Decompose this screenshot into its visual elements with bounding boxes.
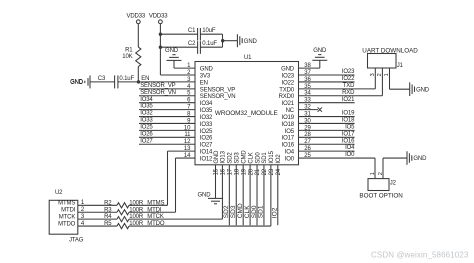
svg-text:MTCK: MTCK — [59, 214, 76, 220]
svg-text:IO27: IO27 — [140, 138, 153, 144]
svg-text:R1: R1 — [125, 48, 133, 54]
svg-text:R4: R4 — [104, 214, 112, 220]
svg-text:RXD0: RXD0 — [279, 94, 295, 100]
svg-text:SD0: SD0 — [255, 152, 261, 164]
svg-text:38: 38 — [304, 63, 311, 69]
svg-text:U2: U2 — [55, 190, 63, 196]
svg-text:16: 16 — [221, 168, 227, 175]
svg-text:GND: GND — [244, 39, 258, 45]
svg-text:C1: C1 — [188, 28, 196, 34]
svg-text:IO33: IO33 — [140, 118, 153, 124]
svg-text:C2: C2 — [188, 41, 196, 47]
svg-text:IO21: IO21 — [342, 97, 355, 103]
svg-text:MTMS: MTMS — [58, 201, 75, 207]
svg-text:24: 24 — [276, 168, 282, 175]
svg-text:J1: J1 — [397, 63, 404, 69]
svg-text:IO18: IO18 — [342, 118, 355, 124]
svg-text:EN: EN — [200, 80, 208, 86]
svg-text:NC: NC — [286, 108, 295, 114]
svg-text:0.1uF: 0.1uF — [202, 41, 217, 47]
svg-text:2: 2 — [377, 73, 383, 76]
svg-text:19: 19 — [241, 168, 247, 175]
svg-text:IO17: IO17 — [342, 131, 355, 137]
svg-text:CLK: CLK — [248, 152, 254, 163]
svg-text:EN: EN — [141, 76, 149, 82]
svg-text:IO19: IO19 — [282, 115, 295, 121]
svg-text:MTDI: MTDI — [61, 208, 76, 214]
svg-text:IO22: IO22 — [282, 80, 295, 86]
svg-text:SENSOR_VN: SENSOR_VN — [200, 94, 236, 100]
svg-text:SENSOR_VP: SENSOR_VP — [200, 87, 235, 93]
svg-text:IO32: IO32 — [140, 111, 153, 117]
svg-text:WROOM32_MODULE: WROOM32_MODULE — [215, 110, 278, 117]
svg-text:10K: 10K — [122, 54, 132, 60]
svg-text:SD1: SD1 — [262, 152, 268, 164]
svg-text:MTDO: MTDO — [58, 221, 76, 227]
svg-text:J2: J2 — [390, 180, 397, 186]
svg-text:MTDI: MTDI — [147, 207, 162, 213]
svg-text:R2: R2 — [104, 200, 112, 206]
svg-text:IO35: IO35 — [200, 108, 213, 114]
svg-text:IO4: IO4 — [285, 150, 295, 156]
svg-text:15: 15 — [214, 168, 220, 175]
svg-text:18: 18 — [234, 168, 240, 175]
svg-text:GND: GND — [200, 67, 214, 73]
svg-text:3: 3 — [370, 73, 376, 76]
svg-text:IO19: IO19 — [342, 111, 355, 117]
svg-text:IO25: IO25 — [200, 129, 213, 135]
svg-text:IO12: IO12 — [200, 156, 213, 162]
svg-text:IO35: IO35 — [140, 104, 153, 110]
svg-text:IO21: IO21 — [282, 101, 295, 107]
svg-text:GND: GND — [313, 48, 327, 54]
svg-text:23: 23 — [269, 168, 275, 175]
svg-text:SD3: SD3 — [235, 152, 241, 164]
svg-text:1: 1 — [370, 172, 376, 175]
svg-text:GND: GND — [413, 156, 427, 162]
svg-text:GND: GND — [416, 87, 430, 93]
svg-text:100R: 100R — [129, 200, 144, 206]
svg-text:VDD33: VDD33 — [127, 14, 146, 20]
svg-text:JTAG: JTAG — [69, 238, 84, 244]
svg-text:R3: R3 — [104, 207, 112, 213]
svg-text:IO14: IO14 — [200, 150, 213, 156]
svg-text:IO32: IO32 — [200, 115, 213, 121]
svg-text:0.1uF: 0.1uF — [119, 76, 134, 82]
svg-text:1: 1 — [384, 73, 390, 76]
svg-text:IO23: IO23 — [342, 69, 355, 75]
svg-text:IO27: IO27 — [200, 143, 213, 149]
svg-text:GND: GND — [165, 48, 179, 54]
svg-text:TXD0: TXD0 — [279, 87, 295, 93]
svg-text:MTCK: MTCK — [147, 214, 164, 220]
svg-text:GND: GND — [281, 67, 295, 73]
svg-text:IO26: IO26 — [200, 136, 213, 142]
svg-text:TXD: TXD — [343, 83, 355, 89]
svg-text:IO33: IO33 — [200, 122, 213, 128]
svg-text:GND: GND — [70, 80, 84, 86]
svg-text:IO16: IO16 — [282, 143, 295, 149]
svg-text:IO13: IO13 — [221, 150, 227, 163]
svg-text:22: 22 — [262, 168, 268, 175]
svg-text:IO16: IO16 — [342, 138, 355, 144]
svg-text:IO5: IO5 — [345, 124, 355, 130]
svg-text:UART DOWNLOAD: UART DOWNLOAD — [362, 48, 418, 55]
svg-text:IO22: IO22 — [342, 76, 355, 82]
svg-text:VDD33: VDD33 — [149, 14, 168, 20]
svg-text:IO4: IO4 — [345, 145, 355, 151]
svg-text:IO0: IO0 — [285, 156, 295, 162]
svg-text:IO5: IO5 — [285, 129, 295, 135]
svg-text:IO15: IO15 — [269, 150, 275, 163]
svg-text:IO25: IO25 — [140, 124, 153, 130]
svg-text:IO2: IO2 — [276, 154, 282, 164]
svg-text:R5: R5 — [104, 221, 112, 227]
svg-text:SENSOR_VN: SENSOR_VN — [140, 90, 176, 96]
svg-text:100R: 100R — [129, 214, 144, 220]
svg-text:C3: C3 — [98, 76, 106, 82]
svg-text:17: 17 — [228, 168, 234, 175]
svg-text:3V3: 3V3 — [200, 73, 211, 79]
svg-text:10uF: 10uF — [202, 28, 216, 34]
svg-text:20: 20 — [248, 168, 254, 175]
svg-text:IO34: IO34 — [140, 97, 153, 103]
svg-text:MTDO: MTDO — [147, 221, 165, 227]
svg-text:IO0: IO0 — [345, 152, 355, 158]
svg-text:IO2: IO2 — [272, 207, 279, 218]
svg-text:CSDN @weixin_58661023: CSDN @weixin_58661023 — [371, 251, 469, 260]
svg-text:MTMS: MTMS — [147, 200, 164, 206]
svg-text:U1: U1 — [244, 55, 252, 61]
svg-text:RXD: RXD — [342, 90, 355, 96]
svg-text:CMD: CMD — [241, 150, 247, 164]
svg-text:IO23: IO23 — [282, 73, 295, 79]
svg-text:SD1: SD1 — [258, 205, 265, 218]
svg-text:SD2: SD2 — [228, 152, 234, 164]
svg-text:2: 2 — [378, 172, 384, 175]
svg-text:BOOT OPTION: BOOT OPTION — [359, 192, 403, 199]
svg-text:IO26: IO26 — [140, 131, 153, 137]
svg-text:IO17: IO17 — [282, 136, 295, 142]
svg-text:SENSOR_VP: SENSOR_VP — [140, 83, 175, 89]
svg-text:100R: 100R — [129, 207, 144, 213]
svg-text:100R: 100R — [129, 221, 144, 227]
svg-text:GND: GND — [214, 150, 220, 164]
svg-text:IO34: IO34 — [200, 101, 213, 107]
svg-text:GND: GND — [198, 192, 212, 198]
svg-text:21: 21 — [255, 168, 261, 175]
svg-text:IO18: IO18 — [282, 122, 295, 128]
